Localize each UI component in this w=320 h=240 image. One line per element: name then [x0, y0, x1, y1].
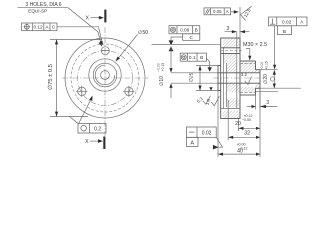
svg-text:0.05: 0.05: [213, 9, 222, 14]
centre hole dia10 edges in section: [218, 73, 260, 83]
recess line lower left: [221, 108, 240, 110]
perpendicularity frame 0.02 A with datum B: [269, 17, 308, 35]
svg-text:0.02: 0.02: [202, 130, 212, 136]
svg-text:40: 40: [237, 149, 243, 155]
hatch right boss bottom: [256, 83, 261, 88]
svg-text:X: X: [85, 15, 89, 21]
svg-text:3 HOLES, DIA 6: 3 HOLES, DIA 6: [25, 2, 61, 8]
hatch right boss top: [256, 70, 261, 73]
surface finish 12.5: [241, 6, 252, 20]
svg-text:∅75 ± 0.5: ∅75 ± 0.5: [47, 64, 54, 90]
hatch band 4: [227, 84, 241, 92]
hatch band 3 flange: [227, 63, 237, 73]
extension line flange right face up: [239, 7, 241, 38]
hub outline: [240, 61, 256, 95]
counterbore edge line: [226, 63, 228, 107]
svg-text:A: A: [190, 141, 194, 147]
concentricity frame 0.1 B: [180, 53, 206, 61]
section label X bottom: [85, 137, 105, 150]
feature control frame position 0.12 A C: [22, 23, 58, 31]
svg-text:6.3: 6.3: [196, 96, 204, 104]
svg-text:∅50: ∅50: [138, 30, 148, 36]
long extension line to flange left face: [152, 43, 221, 45]
svg-text:∅10: ∅10: [159, 76, 165, 86]
svg-text:3.2: 3.2: [241, 72, 248, 77]
svg-text:A: A: [45, 25, 49, 30]
svg-text:20: 20: [235, 121, 241, 127]
section label X top: [85, 10, 106, 23]
bolt hole lower right: [123, 86, 134, 97]
dimension dia 20 right: [260, 61, 301, 88]
svg-text:C: C: [52, 25, 56, 30]
svg-text:−0.00: −0.00: [242, 118, 251, 122]
extension lines bottom dims: [218, 88, 260, 157]
bolt hole lower left: [76, 86, 87, 97]
svg-text:0.08: 0.08: [180, 28, 190, 33]
bolt hole top: [101, 47, 110, 55]
dimension 20: [235, 114, 260, 130]
surface finish 3.2 inside hole: [241, 72, 252, 85]
svg-text:M30 × 2.5: M30 × 2.5: [243, 42, 267, 48]
svg-text:B: B: [200, 55, 203, 60]
hatch flange top band: [223, 38, 240, 48]
svg-text:12.5: 12.5: [243, 8, 252, 19]
svg-text:X: X: [85, 139, 89, 145]
leader from circularity frame to dia75 extension: [70, 117, 79, 124]
surface finish 6.3: [196, 96, 211, 105]
leader 0.1 frame down to dia10 extension: [207, 58, 212, 72]
M30 x 2.5 thread note: [243, 42, 267, 60]
extension line step up: [236, 32, 238, 48]
svg-text:+0.15: +0.15: [161, 63, 165, 72]
svg-text:3: 3: [227, 26, 230, 32]
svg-text:3: 3: [266, 100, 269, 106]
flange step line: [236, 47, 238, 109]
dimension dia 25: [188, 66, 218, 91]
hatch flange band 2: [223, 53, 236, 63]
hatch band 3 hub: [240, 61, 256, 72]
circularity frame 0.2: [78, 124, 106, 134]
centre hole dia 10: [101, 71, 110, 80]
leader from position frame to hole: [57, 27, 103, 46]
front view horizontal centerline: [62, 77, 149, 79]
left boss outline: [218, 66, 221, 91]
dimension 3 right: [247, 88, 277, 109]
svg-text:EQUI-SP: EQUI-SP: [28, 9, 47, 14]
bolt hole edges in section: [221, 48, 240, 54]
leader from circularity frame to flange OD: [79, 96, 93, 124]
svg-text:B: B: [195, 28, 198, 33]
leader perpendicularity down: [273, 26, 276, 70]
flange outline: [221, 38, 240, 119]
recess floor line: [222, 47, 224, 109]
svg-text:∅20: ∅20: [263, 74, 269, 84]
svg-text:−0.00: −0.00: [260, 62, 264, 71]
svg-text:0.12: 0.12: [33, 25, 43, 30]
datum triangle on extension line: [209, 87, 213, 90]
leader parallelism to right face ext: [231, 10, 239, 13]
leader straightness to left face datum: [213, 137, 223, 149]
svg-text:B: B: [283, 29, 286, 35]
dimension 3 top: [225, 26, 250, 33]
thread OD circle: [93, 63, 117, 87]
thread root arc 3/4: [95, 65, 115, 85]
svg-text:1.6: 1.6: [205, 98, 212, 106]
leader from note to hole: [68, 8, 102, 47]
right boss outline: [256, 70, 261, 89]
hub outer circle: [89, 59, 121, 91]
dimension 32: [228, 130, 260, 139]
parallelism frame 0.05 A: [204, 8, 231, 15]
svg-text:C: C: [190, 35, 194, 40]
stray line right of hub: [256, 91, 279, 93]
concentricity frame 0.08 B with datum C: [169, 26, 200, 41]
bolt circle dash-dot: [78, 51, 133, 106]
flange outer circle: [65, 38, 145, 118]
svg-text:0.1: 0.1: [189, 55, 196, 60]
straightness frame 0.02 with datum A: [187, 127, 217, 147]
svg-text:0.02: 0.02: [282, 19, 292, 25]
svg-text:+0.15: +0.15: [265, 61, 269, 70]
section centerline: [213, 77, 264, 79]
svg-text:∅25: ∅25: [188, 72, 194, 82]
note: 3 HOLES, DIA 6 / EQUI-SP: [18, 2, 69, 13]
hatch band 6 bottom: [223, 111, 240, 119]
dimension dia 75 +-0.5: [47, 40, 102, 117]
svg-text:A: A: [300, 19, 304, 25]
thread root lines: [240, 64, 256, 93]
front view vertical centerline / cutting plane: [104, 27, 106, 136]
hatch band 5: [227, 98, 241, 107]
svg-text:0.2: 0.2: [94, 126, 101, 132]
hidden circle dashed: [71, 44, 139, 112]
dimension dia 50: [116, 30, 149, 62]
leader from datum C box down to extension line: [169, 37, 183, 45]
surface finish 1.6: [205, 96, 220, 106]
svg-text:32: 32: [244, 130, 250, 136]
dimension 40: [218, 142, 260, 155]
svg-text:−0.00: −0.00: [157, 63, 161, 72]
dimension dia 10: [157, 46, 219, 98]
svg-text:A: A: [226, 9, 229, 14]
bolt hole centerline in section: [221, 50, 243, 52]
